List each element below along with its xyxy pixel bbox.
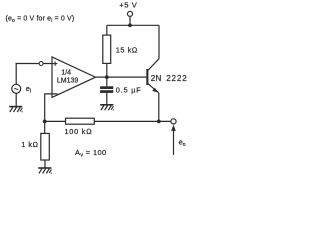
- wire: emitter down to output line: [158, 93, 160, 122]
- emitter arrowhead: [152, 88, 157, 93]
- svg-text:eo: eo: [179, 137, 186, 148]
- svg-text:2222: 2222: [166, 74, 187, 83]
- wire: input terminal to op-amp plus input: [16, 63, 52, 65]
- transistor Q1 2N2222: [146, 59, 159, 93]
- ground (source): [9, 107, 23, 113]
- +5 V terminal: [128, 11, 133, 16]
- ground (capacitor): [100, 105, 114, 111]
- wire: rail down to R 15k: [106, 25, 108, 35]
- wire: source to ground: [15, 93, 17, 107]
- resistor R3 1 kOhm: [41, 133, 50, 160]
- svg-text:0.5 µF: 0.5 µF: [116, 86, 142, 95]
- wire: down to source e_i: [15, 63, 17, 85]
- junction: +5V rail: [128, 23, 132, 27]
- collector lead: [148, 59, 160, 71]
- svg-text:+5 V: +5 V: [119, 0, 138, 9]
- wire: +5V stem: [129, 17, 131, 26]
- wire: op-amp output to transistor base: [96, 76, 147, 78]
- svg-text:2N: 2N: [151, 74, 162, 83]
- ground (R 1k): [38, 168, 52, 174]
- wire: node down to capacitor: [106, 77, 108, 86]
- junction: output/cap node: [105, 75, 109, 79]
- output terminal: [171, 119, 176, 124]
- wire: bottom output/feedback line: [45, 120, 171, 122]
- junction: emitter node: [157, 120, 161, 124]
- junction: feedback node: [43, 120, 47, 124]
- plus input mark: [54, 61, 56, 65]
- svg-text:1/4: 1/4: [61, 70, 71, 77]
- svg-text:1 kΩ: 1 kΩ: [21, 140, 39, 149]
- arrow e_o: [173, 130, 175, 155]
- wire: R 1k to ground: [44, 160, 46, 168]
- wire: collector to +5V rail: [158, 25, 160, 58]
- op-amp U1 1/4 LM139: [52, 57, 96, 97]
- svg-text:100 kΩ: 100 kΩ: [65, 127, 93, 136]
- wire: R 15k to output node: [106, 63, 108, 77]
- svg-text:LM139: LM139: [57, 77, 79, 84]
- svg-text:ei: ei: [26, 84, 31, 95]
- wire: top rail: [107, 24, 159, 26]
- base bar: [146, 69, 148, 85]
- wire: capacitor to ground: [106, 93, 108, 105]
- resistor R2 100 kOhm: [66, 118, 95, 124]
- emitter lead: [148, 83, 159, 93]
- wire: feedback node down to R 1k: [44, 121, 46, 133]
- resistor R1 15 kOhm: [103, 35, 111, 63]
- svg-text:Av = 100: Av = 100: [75, 148, 107, 159]
- wire: feedback node up to inverting input: [45, 94, 58, 122]
- svg-text:(eo = 0 V for ei = 0 V): (eo = 0 V for ei = 0 V): [6, 15, 75, 24]
- input terminal circle: [39, 62, 43, 66]
- capacitor C1 0.5 uF: [100, 86, 113, 89]
- source e_i (AC): [12, 84, 21, 93]
- svg-text:15 kΩ: 15 kΩ: [116, 45, 138, 54]
